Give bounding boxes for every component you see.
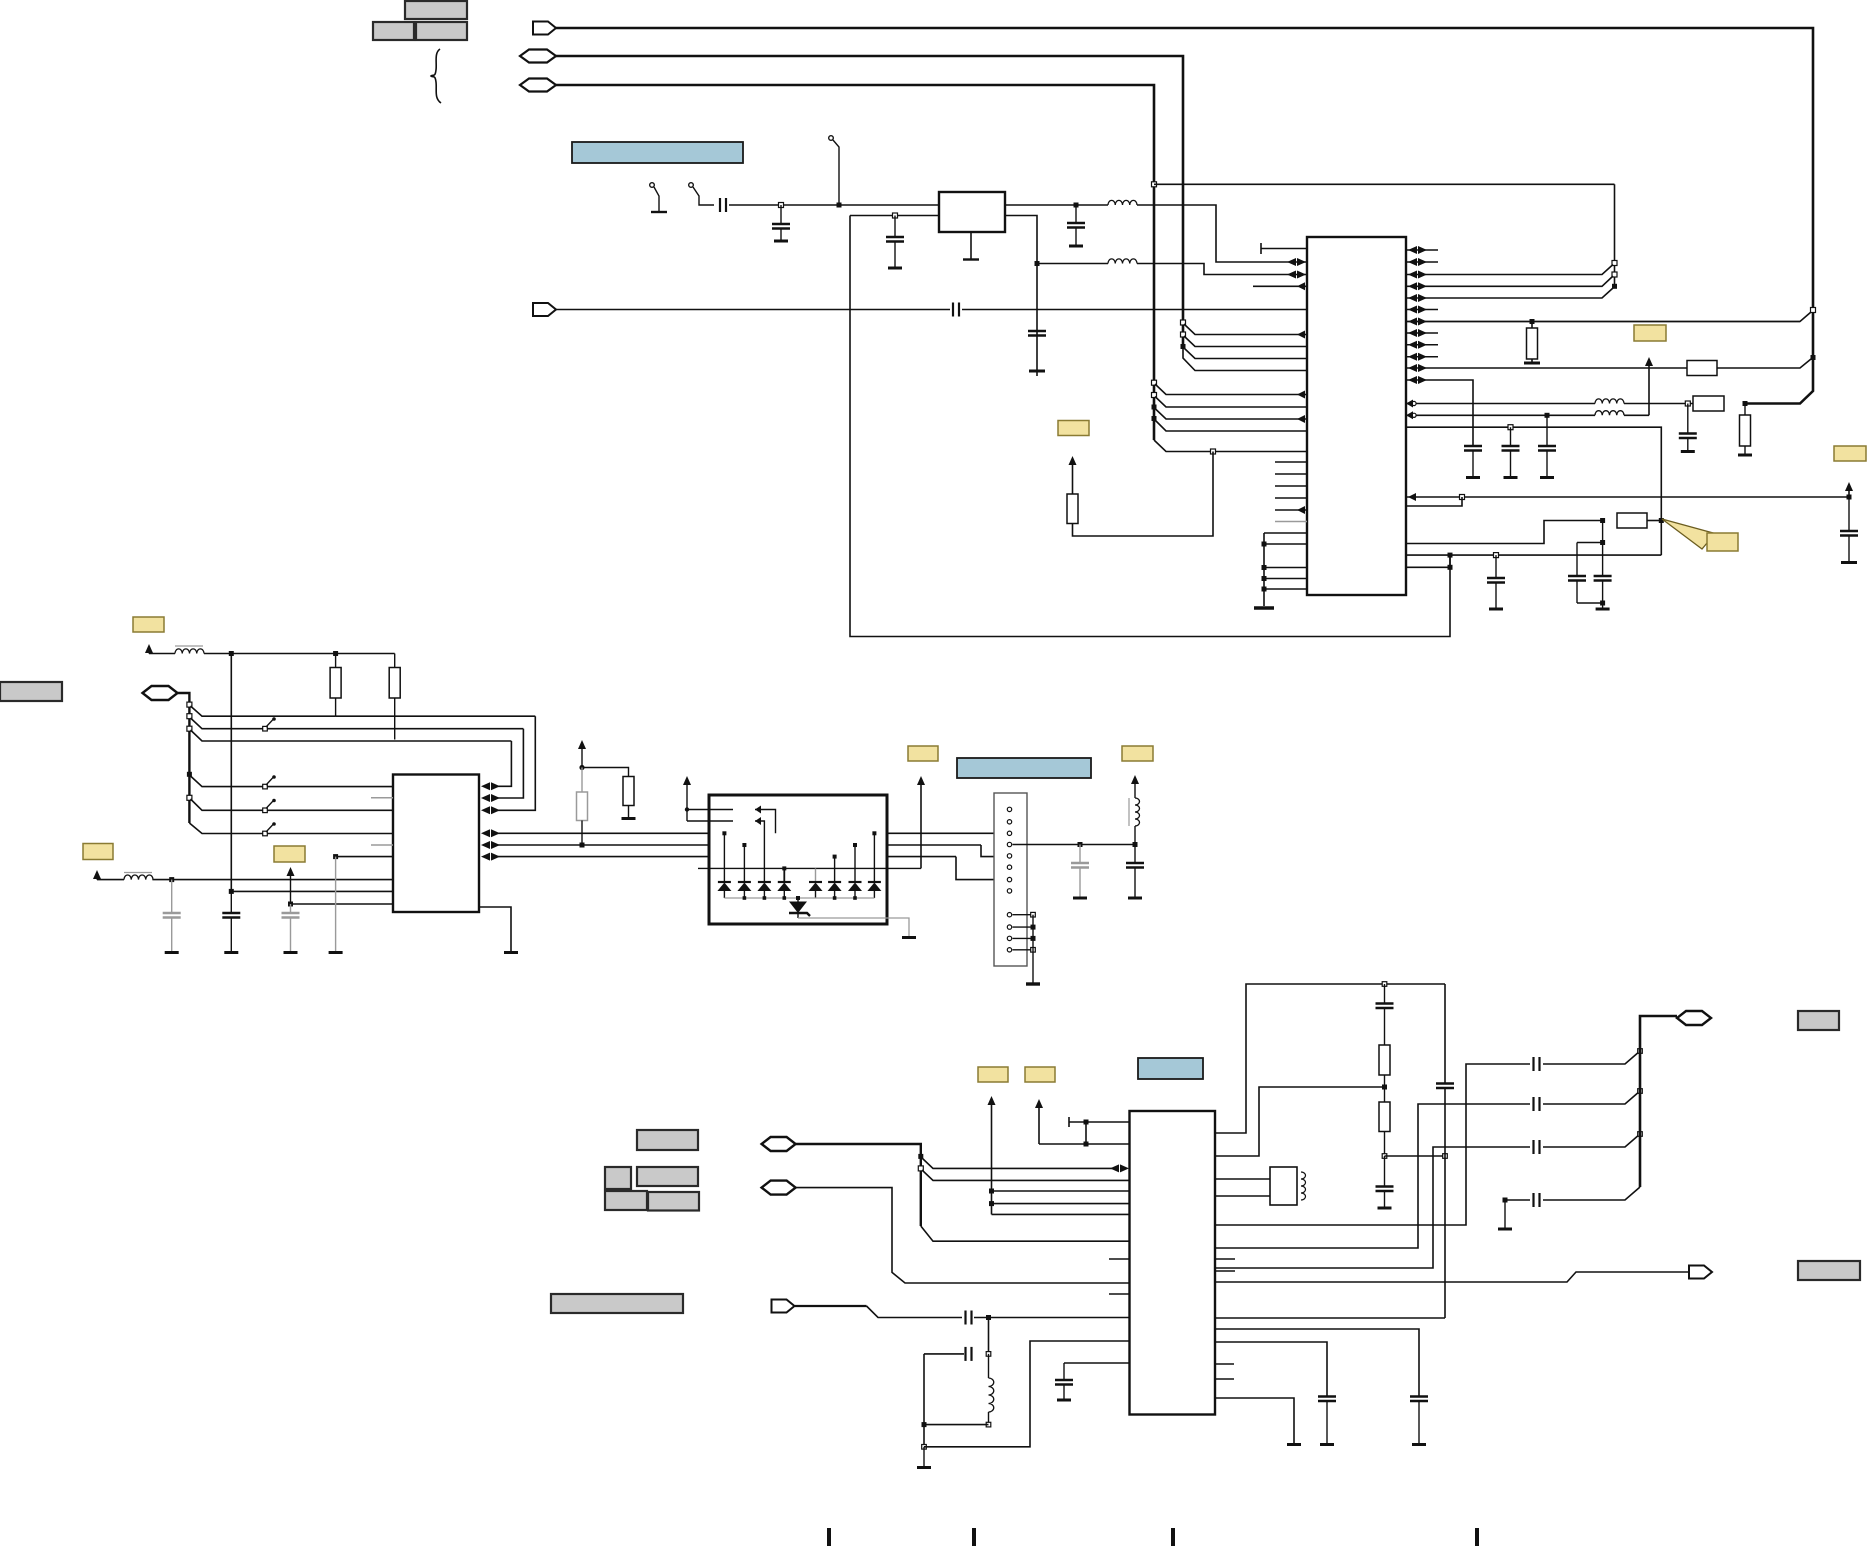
wire pin1268 RF — [1215, 1147, 1530, 1268]
inductor L4 — [1595, 411, 1624, 416]
capacitor C6 to gnd — [780, 205, 782, 224]
vertical x1445 with cap — [1444, 984, 1446, 1084]
IC U1 — [1307, 237, 1406, 595]
wire pin1318 — [1215, 1317, 1445, 1319]
J1 pin y927.1 — [1007, 925, 1011, 929]
junction gnd bus y589 — [1262, 587, 1267, 592]
U1 right pin arrow y380 — [1408, 376, 1417, 384]
inductor L7 vertical — [1128, 798, 1130, 826]
power arrow A2 — [1648, 365, 1650, 415]
testpoint T2 + input wire — [689, 183, 694, 188]
junction 984 — [1382, 982, 1387, 987]
wire pin1329 cap — [1215, 1329, 1419, 1397]
arrow A8 + stubs — [683, 776, 691, 785]
U1 right pin arrow y286.3 — [1408, 282, 1417, 290]
U2 output wire — [1005, 204, 1108, 206]
bus3 branch junctions — [1152, 380, 1157, 385]
wire 1156 link — [1385, 1155, 1446, 1157]
connector P2 (hexagon) — [520, 50, 556, 63]
wire loop to resistor R3 — [1073, 452, 1214, 537]
ground U1 left — [1254, 606, 1274, 609]
U1 right pin arrow y274.5 — [1408, 271, 1417, 279]
label yellow Y1 — [1058, 421, 1089, 436]
wire b2 to 728 — [191, 718, 524, 729]
series cap C28 — [1532, 1140, 1534, 1154]
wire to pin298 right — [1406, 288, 1613, 298]
connector P8 (flag) — [772, 1300, 795, 1313]
junction gnd bus y578.5 — [1262, 576, 1267, 581]
junction x988 — [986, 1315, 991, 1320]
U3 right pin arrow y856.6 — [481, 853, 490, 861]
label grey G6 — [648, 1192, 699, 1211]
U1 right stub pin y356.7 — [1406, 356, 1438, 358]
vertical from net5 to pin891 — [230, 654, 232, 892]
junction 1087 — [1382, 1085, 1387, 1090]
junction C12 — [1545, 413, 1550, 418]
label grey G4 — [637, 1167, 698, 1186]
diode D6 — [828, 881, 841, 883]
wire pin1225 RF — [1215, 1064, 1530, 1225]
U1 right pin arrow y356.7 — [1408, 353, 1417, 361]
power arrow A3 — [1848, 490, 1850, 497]
wire pin545 to R6 — [1406, 521, 1603, 544]
wire pin415 chain — [1406, 414, 1595, 416]
junction C8 — [1074, 203, 1079, 208]
gnd-coupled cap C29 — [1504, 1200, 1506, 1228]
J1 gnd pin wire y938.4 — [1013, 937, 1034, 939]
U1 gnd pin wire y567.5 — [1264, 567, 1307, 569]
capacitor C20 to gnd — [290, 904, 292, 913]
capacitor C19 to gnd — [230, 891, 232, 913]
wire pin1248 RF — [1215, 1104, 1530, 1248]
nested verticals to U3 right pins — [497, 716, 535, 810]
wire diag to y321 — [1406, 312, 1811, 322]
junction on bus1 y310 — [1811, 308, 1816, 313]
junction T3 — [837, 203, 842, 208]
U3 right pin arrow y786.3 — [481, 782, 490, 790]
resistor R8 — [394, 654, 396, 668]
wire net5 — [204, 653, 395, 655]
gnd x924 — [923, 1447, 925, 1466]
junction C21 — [1078, 842, 1083, 847]
wire A12 to pins — [1039, 1122, 1086, 1144]
series cap C27 — [1532, 1097, 1534, 1111]
junction A7 — [579, 765, 584, 770]
U1 right stub pin y344.8 — [1406, 344, 1438, 346]
junction A11 b — [989, 1201, 994, 1206]
wire pin427 loop — [1406, 427, 1661, 520]
wire L3 to R4 — [1624, 403, 1693, 405]
title block grey box 1 — [405, 1, 467, 19]
junction 554 b — [1494, 553, 1499, 558]
wire P7 to pin1283 — [796, 1188, 1130, 1283]
connector P3 (hexagon) — [520, 79, 556, 92]
wire net2 — [556, 56, 1183, 347]
power arrow A12 — [1035, 1099, 1043, 1108]
junction 1156 a — [1382, 1154, 1387, 1159]
junction C7 — [893, 213, 898, 218]
wire bus3 to pin407 — [1155, 397, 1307, 408]
power arrow A4 + inductor L5 — [145, 644, 153, 653]
page tick 2 — [972, 1528, 976, 1546]
U2 bottom pin — [970, 232, 972, 259]
junction 1614 c — [1612, 284, 1617, 289]
capacitor C22 to gnd — [1134, 845, 1136, 864]
label yellow Y4 — [1707, 533, 1738, 551]
U1 left stub pin y486 — [1275, 485, 1307, 487]
diode D1 — [718, 881, 731, 883]
resistor R9 branch — [582, 768, 629, 777]
junction pin904 — [288, 902, 293, 907]
connector P1 (flag) — [533, 22, 556, 35]
U1 gnd pin wire y544 — [1264, 543, 1307, 545]
resistor R5 to gnd — [1744, 404, 1746, 416]
junction rail x834.6 — [833, 896, 837, 900]
testpoint T1 — [650, 183, 655, 188]
wire b4 to 786 — [191, 776, 394, 787]
U1 right pin arrow y309.5 — [1408, 306, 1417, 314]
junction C6 — [779, 203, 784, 208]
capacitor pair C16 C17 — [1602, 521, 1604, 543]
capacitor C14 to gnd — [1848, 497, 1850, 531]
diode stems — [723, 833, 725, 882]
wire y184 to right — [1154, 183, 1615, 185]
capacitor C8 to gnd — [1075, 205, 1077, 223]
J1 pin y844.5 — [1007, 842, 1011, 846]
U1 right stub pin y333 — [1406, 332, 1438, 334]
wire b3 to 741 — [191, 730, 512, 741]
wire to pin1241 — [921, 1226, 1130, 1241]
junction rail x784.3 — [783, 896, 787, 900]
U3 right pin arrow y810.3 — [481, 806, 490, 814]
J1 gnd pin wire y914.7 — [1013, 914, 1034, 916]
voltage regulator U2 — [939, 192, 1005, 232]
wire b5 to 810 — [191, 799, 394, 810]
connector P6 (hexagon) — [762, 1137, 796, 1151]
U1 gnd pin wire y533 — [1264, 532, 1307, 534]
title block grey box 2 — [373, 22, 414, 40]
label grey G7 big — [551, 1294, 683, 1313]
label grey G5 — [605, 1191, 647, 1210]
junction RF b — [1638, 1089, 1643, 1094]
resistor R6 — [1617, 513, 1647, 528]
J1 pin y949.8 — [1007, 948, 1011, 952]
wire P8 — [795, 1305, 867, 1307]
junction on bus1 y357 — [1811, 355, 1816, 360]
J1 pin y809.4 — [1007, 807, 1011, 811]
wire pin554 — [1406, 554, 1661, 556]
pin1122 T stub — [1068, 1117, 1070, 1127]
U1 right stub pin y262 — [1406, 261, 1438, 263]
connector P10 (flag) — [1689, 1266, 1712, 1279]
zener gnd wire — [798, 918, 909, 936]
label blue B1 — [572, 142, 743, 163]
U1 right pin arrow y250 — [1408, 246, 1417, 254]
junction pin891 — [229, 889, 234, 894]
J1 pin y938.4 — [1007, 936, 1011, 940]
U1 right stub pin y250 — [1406, 249, 1438, 251]
junction RF a — [1638, 1049, 1643, 1054]
J1 pin y867.2 — [1007, 865, 1011, 869]
U1 left stub pin y462 — [1275, 461, 1307, 463]
junction C11 — [1685, 401, 1690, 406]
wire R4 to bus diag — [1745, 403, 1800, 405]
wire pin1398 gnd — [1215, 1398, 1294, 1443]
capacitor C21 to gnd — [1079, 845, 1081, 864]
J1 pin845 net — [1013, 844, 1136, 846]
page tick 4 — [1475, 1528, 1479, 1546]
inner stub L1 — [755, 810, 776, 834]
junction C13 — [1508, 425, 1513, 430]
wire to pin1168 — [922, 1158, 1117, 1168]
enclosure left/bottom wire — [850, 215, 939, 217]
junction C18 — [169, 877, 174, 882]
resistor R2 — [1687, 361, 1717, 376]
label yellow Y11 — [1025, 1067, 1055, 1082]
wires A11 to pins — [992, 1190, 1130, 1192]
wire 1446 loop to pin1341 — [924, 1341, 1130, 1447]
U1 gnd pin wire y589 — [1264, 588, 1307, 590]
junction A3 — [1847, 495, 1852, 500]
U1 left stub pin y510 — [1275, 509, 1307, 511]
junction 1122 — [1084, 1120, 1089, 1125]
switch SW1 — [263, 726, 268, 731]
zener D9 — [797, 898, 799, 902]
U1 left ground bus — [1263, 533, 1265, 606]
bus P6 junctions — [918, 1154, 923, 1159]
J1 gnd pin wire y949.8 — [1013, 949, 1034, 951]
inductor L2 — [1108, 259, 1137, 264]
wire net1 top — [556, 28, 1813, 404]
label grey G1 — [0, 682, 62, 701]
pin arrows U1 left — [1287, 258, 1296, 266]
title block grey box 3 — [416, 22, 467, 40]
wire C24 left — [924, 1353, 964, 1355]
wire to pin286 right — [1406, 276, 1613, 286]
J1 pin y914.7 — [1007, 913, 1011, 917]
curly brace — [431, 49, 441, 103]
label yellow Y7 — [274, 846, 305, 862]
wire pin1156 tap — [1215, 1087, 1385, 1156]
label yellow Y8 — [908, 746, 938, 761]
junction A11 a — [989, 1189, 994, 1194]
wire bus3 to pin419 — [1155, 409, 1307, 420]
junction gnd bus y567.5 — [1262, 565, 1267, 570]
U1 right pin arrow y321.5 — [1408, 318, 1417, 326]
power arrow A7 divider — [578, 740, 586, 749]
wire pin1282 out — [1215, 1272, 1689, 1282]
diode D4 — [778, 881, 791, 883]
wire bus3 end to pin452 — [1154, 440, 1307, 452]
label yellow Y9 — [1122, 746, 1153, 761]
step 845 to 856 — [981, 845, 1006, 857]
capacitor C11 to gnd — [1687, 404, 1689, 434]
junction rail x855 — [853, 896, 857, 900]
J1 pin y833.3 — [1007, 831, 1011, 835]
U3 right pin arrow y798 — [481, 794, 490, 802]
label blue B3 — [957, 758, 1091, 778]
J1 gnd pin wire y927.1 — [1013, 926, 1034, 928]
junction L5 a — [229, 651, 234, 656]
label yellow Y6 — [83, 844, 113, 860]
resistor R7 — [335, 654, 337, 668]
label yellow Y10 — [978, 1067, 1008, 1082]
junction R5 — [1743, 401, 1748, 406]
J1 pin y890.9 — [1007, 889, 1011, 893]
capacitor C18 to gnd — [171, 880, 173, 913]
junction rail x744.4 — [743, 896, 747, 900]
U1 gnd pin wire y578.5 — [1264, 578, 1307, 580]
wire L2 to pin274 — [1037, 263, 1108, 265]
wire net4 with series cap — [556, 309, 950, 311]
testpoint T3 — [829, 136, 834, 141]
wire L1 to pin262 — [1137, 205, 1307, 262]
vertical x1614 — [1614, 184, 1616, 286]
U1 left stub pin y498 — [1275, 497, 1307, 499]
wire bus2 to pin370 — [1183, 347, 1307, 371]
diode bottom rail — [724, 897, 874, 899]
capacitor C25 pin1363 — [1064, 1362, 1130, 1364]
wire net3 — [556, 85, 1154, 440]
wire bus2 to pin334 — [1184, 324, 1307, 335]
wire b1 to 716 — [191, 706, 336, 716]
switch SW4 — [263, 831, 268, 836]
U1 right pin arrow y344.8 — [1408, 341, 1417, 349]
junction R10 — [580, 843, 585, 848]
switch SW2 — [263, 784, 268, 789]
crystal X1 — [1270, 1167, 1297, 1205]
wire pin403 chain — [1406, 403, 1595, 405]
connector P7 (hexagon) — [762, 1181, 796, 1195]
J1 pin y821.8 — [1007, 820, 1011, 824]
power arrow A5 + inductor L6 to pin879 — [93, 870, 101, 879]
wire L4 to arrow stem — [1624, 414, 1649, 416]
wire bus3 to pin431 — [1155, 420, 1307, 431]
wires U3 to diode array — [497, 832, 1006, 834]
bus P6 — [796, 1144, 921, 1226]
wire net4 cont to IC — [962, 309, 1307, 311]
wire pin380 to cap — [1406, 380, 1473, 446]
junction 1614 a — [1612, 261, 1617, 266]
wire b6 to 833 — [189, 823, 393, 834]
wire pin1342 cap — [1215, 1342, 1327, 1397]
wire to pin274 right — [1406, 265, 1613, 275]
diode array box D1 — [709, 795, 887, 924]
power arrow A6 to pin904 — [287, 867, 295, 876]
bus2 branch junctions — [1181, 320, 1186, 325]
step 856 to 879 — [956, 857, 1006, 880]
U1 right pin arrow y368 — [1408, 364, 1417, 372]
inductor L1 — [1108, 200, 1137, 205]
junction R1 top — [1530, 319, 1535, 324]
wire pin506 — [1406, 497, 1462, 506]
wire to pin1180 — [922, 1170, 1130, 1180]
U1 pin arrow y510 — [1297, 506, 1305, 514]
label yellow Y5 — [133, 617, 164, 632]
resistor R4 — [1693, 396, 1724, 411]
J1 pin y879.6 — [1007, 877, 1011, 881]
capacitor C15 to gnd — [1495, 555, 1497, 578]
series capacitor C5 — [719, 198, 721, 212]
connector J1 — [994, 793, 1027, 966]
junction net3-net184 — [1152, 182, 1157, 187]
U1 right pin arrow y298 — [1408, 294, 1417, 302]
resistor R1 — [1531, 322, 1533, 329]
junction L2 — [1035, 261, 1040, 266]
junction 1424 — [986, 1422, 991, 1427]
U1 right pin arrow y333 — [1408, 329, 1417, 337]
connector P5 (hexagon) — [143, 686, 178, 700]
U3 right pin arrow y845 — [481, 841, 490, 849]
resistor R3 — [1067, 494, 1078, 524]
wire pin567 — [1406, 566, 1450, 568]
capacitor C9 to gnd — [1028, 330, 1046, 332]
U4 right stubs — [1215, 1258, 1235, 1260]
capacitor C10 — [1464, 445, 1482, 447]
junction gnd bus y544 — [1262, 542, 1267, 547]
junction 1424 b — [922, 1422, 927, 1427]
diode D7 — [849, 881, 862, 883]
wire C23 to pin1317 — [974, 1317, 1130, 1319]
wire R3 up to arrow — [1072, 464, 1074, 494]
wire R6 right — [1647, 520, 1661, 522]
inner wire 868 — [698, 867, 921, 869]
label yellow Y2 — [1634, 325, 1666, 341]
U1 right pin arrow y262 — [1408, 258, 1417, 266]
J1 pin y855.9 — [1007, 854, 1011, 858]
wire pin497 long — [1406, 496, 1849, 498]
junction rail x764.4 — [763, 896, 767, 900]
power arrow A10 — [1134, 783, 1136, 798]
bus P5 — [178, 693, 190, 823]
inductor L8 vertical — [988, 1354, 990, 1378]
junction 1144 — [1084, 1142, 1089, 1147]
inner stub L2 — [755, 821, 764, 882]
wire y368 to IC — [1406, 367, 1687, 369]
diode D2 — [738, 881, 751, 883]
junction 554 a — [1448, 553, 1453, 558]
label blue B4 — [1138, 1058, 1203, 1079]
page tick 3 — [1171, 1528, 1175, 1546]
resistor R10 branch — [581, 768, 583, 793]
pin1144 wire — [1086, 1143, 1130, 1145]
IC U4 — [1130, 1111, 1216, 1415]
U3 right pin arrow y833.3 — [481, 829, 490, 837]
wire 1424 — [924, 1424, 989, 1426]
diode D5 — [809, 881, 822, 883]
bus P5 junctions — [187, 702, 192, 707]
divider chain x1384 — [1384, 984, 1386, 1004]
junction R7 — [333, 651, 338, 656]
wire bus2 to pin346 — [1184, 336, 1307, 347]
wire pin1133 crystal loop — [1215, 984, 1445, 1133]
capacitor C7 to gnd — [894, 216, 896, 238]
junction R6 right — [1659, 518, 1664, 523]
callout triangle — [1662, 519, 1715, 549]
capacitor C13 to gnd — [1510, 427, 1512, 446]
gnd tie pin856 — [333, 854, 338, 859]
wire pin321 long — [1406, 321, 1800, 323]
wire diag to y368 — [1717, 359, 1811, 368]
power arrow A1 — [1069, 456, 1077, 465]
label yellow Y3 — [1834, 446, 1866, 461]
switch SW3 — [263, 808, 268, 813]
junction 1354 — [986, 1352, 991, 1357]
U1 left stub pin y474 — [1275, 473, 1307, 475]
U1 left stub pin y521.5 — [1275, 521, 1307, 523]
RF bus thick — [1640, 1016, 1677, 1187]
label grey G9 — [1798, 1261, 1860, 1280]
